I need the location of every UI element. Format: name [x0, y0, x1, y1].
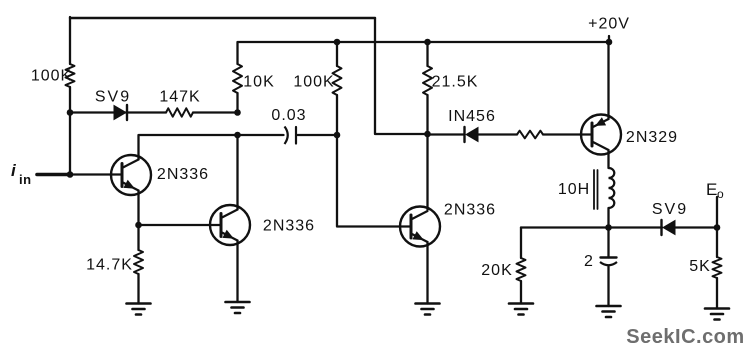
node H output junction	[714, 224, 721, 231]
wire R1 to input node	[69, 87, 71, 175]
wire cap to node E	[298, 134, 338, 136]
svg-text:20K: 20K	[481, 262, 512, 279]
wire diode to output node	[676, 226, 718, 228]
wire C2 to ground	[607, 267, 609, 307]
wire Q2 collector	[236, 135, 238, 210]
value 21.5K	[432, 74, 479, 91]
value 5K	[689, 258, 711, 275]
inductor L1 10H	[594, 168, 614, 209]
wire R2 to node B	[193, 111, 238, 113]
wire node A to diode	[70, 111, 114, 113]
value 0.03	[271, 107, 306, 124]
watermark SeekIC.com	[626, 326, 744, 348]
wire Q3 collector	[426, 134, 428, 210]
label Q4 2N329	[626, 129, 678, 146]
resistor R2 147K	[166, 108, 193, 116]
node A junction (R1 / SV9)	[67, 109, 74, 116]
svg-text:147K: 147K	[159, 89, 200, 106]
wire Q4 collector	[607, 150, 609, 168]
value 10K	[243, 74, 274, 91]
svg-text:E: E	[706, 180, 717, 199]
value 147K	[159, 89, 200, 106]
node G junction (L1/C2)	[605, 224, 612, 231]
wire 20K drop	[520, 228, 522, 259]
node F junction (21.5K/diode/Q3)	[424, 131, 431, 138]
wire output rail	[521, 226, 662, 228]
wire Q1 base lead	[70, 173, 122, 175]
svg-text:SeekIC.com: SeekIC.com	[626, 326, 744, 348]
wire top rail	[70, 17, 375, 19]
wire Q2 base lead	[139, 224, 222, 226]
wire R4 down	[236, 93, 238, 113]
ground G6	[705, 309, 729, 320]
value 14.7K	[86, 257, 133, 274]
svg-text:SV9: SV9	[652, 201, 688, 218]
svg-text:2N336: 2N336	[157, 166, 209, 183]
wire 5K drop	[716, 228, 718, 258]
resistor R5 100K (interstage)	[333, 66, 342, 95]
node B junction (R2/10K)	[234, 109, 241, 116]
transistor Q4 2N329	[581, 115, 621, 155]
wire R7 to Q4 base	[543, 133, 592, 135]
label i_in	[11, 161, 32, 187]
resistor R1 100K (input bias)	[66, 64, 75, 87]
wire L1 to node G	[607, 208, 609, 228]
ground G3	[416, 304, 440, 315]
svg-text:2N336: 2N336	[444, 202, 496, 219]
value 100K	[31, 68, 72, 85]
value 10H	[558, 181, 590, 198]
svg-text:2N329: 2N329	[626, 129, 678, 146]
wire R5 down to cap node	[336, 95, 338, 135]
svg-text:SV9: SV9	[95, 89, 131, 106]
ground G5	[597, 306, 621, 317]
wire Q2 emitter	[236, 241, 238, 303]
svg-text:+20V: +20V	[588, 16, 630, 33]
wire left supply drop	[69, 17, 71, 64]
label Q2 2N336	[263, 218, 315, 235]
wire E_o lead	[716, 197, 718, 228]
wire Q1 emitter	[137, 191, 139, 226]
wire diode to R7	[478, 133, 517, 135]
transistor Q2 2N336	[210, 205, 250, 245]
wire R6 top	[426, 42, 428, 66]
svg-text:0.03: 0.03	[271, 107, 306, 124]
wire node D to R3	[137, 225, 139, 250]
svg-text:in: in	[19, 172, 32, 187]
wire R6 to node F	[426, 95, 428, 134]
svg-text:10H: 10H	[558, 181, 590, 198]
wire node F to diode	[428, 133, 465, 135]
ground G4	[509, 304, 533, 315]
wire diode to R2	[126, 111, 167, 113]
node rail dot 21.5K	[424, 39, 431, 46]
svg-text:5K: 5K	[689, 258, 711, 275]
label +20V	[588, 16, 630, 33]
wire Q1 collector	[139, 135, 284, 160]
wire +20V rail	[238, 42, 610, 64]
resistor R9 5K	[713, 257, 722, 278]
svg-text:14.7K: 14.7K	[86, 257, 133, 274]
resistor R3 14.7K	[134, 250, 143, 274]
label E_o	[706, 180, 724, 201]
node rail dot 100K	[334, 39, 341, 46]
diode CR1 SV9	[114, 105, 127, 120]
wire R5 line to Q3 base	[337, 135, 411, 227]
resistor R7 (base)	[517, 131, 543, 139]
node D junction (emitter/base/R3)	[135, 222, 142, 229]
value SV9 output	[652, 201, 688, 218]
svg-text:100K: 100K	[31, 68, 72, 85]
svg-text:2N336: 2N336	[263, 218, 315, 235]
diode CR2 1N456	[465, 127, 479, 142]
svg-text:21.5K: 21.5K	[432, 74, 479, 91]
wire Q3 emitter	[426, 242, 428, 304]
value 2	[584, 253, 594, 270]
value 20K	[481, 262, 512, 279]
ground G1	[127, 304, 151, 315]
wire R9 to ground	[716, 278, 718, 309]
node input junction	[67, 171, 74, 178]
transistor Q3 2N336	[400, 207, 440, 247]
wire R8 to ground	[520, 281, 522, 304]
diode CR3 SV9 output	[662, 220, 676, 235]
node C junction (collector rail)	[234, 132, 241, 139]
wire R5 top	[336, 42, 338, 66]
svg-text:2: 2	[584, 253, 594, 270]
wire Q4 emitter to rail	[607, 42, 609, 119]
svg-text:IN456: IN456	[448, 108, 496, 125]
value IN456	[448, 108, 496, 125]
svg-text:100K: 100K	[293, 74, 334, 91]
value 100K interstage	[293, 74, 334, 91]
resistor R6 21.5K	[423, 66, 432, 95]
svg-text:10K: 10K	[243, 74, 274, 91]
power +20V stub	[608, 36, 610, 42]
capacitor C1 0.03	[285, 127, 297, 145]
label Q1 2N336	[157, 166, 209, 183]
label Q3 2N336	[444, 202, 496, 219]
wire input lead	[37, 173, 70, 177]
wire R3 to ground	[137, 274, 139, 304]
ground G2	[226, 302, 250, 313]
value SV9	[95, 89, 131, 106]
node E junction (cap/R5)	[334, 132, 341, 139]
wire feedback jumper	[375, 18, 428, 134]
resistor R4 10K	[233, 64, 242, 93]
node rail dot 2N329	[606, 39, 613, 46]
resistor R8 20K	[517, 258, 526, 281]
capacitor C2 2uF	[600, 228, 617, 266]
transistor Q1 2N336	[111, 155, 151, 195]
